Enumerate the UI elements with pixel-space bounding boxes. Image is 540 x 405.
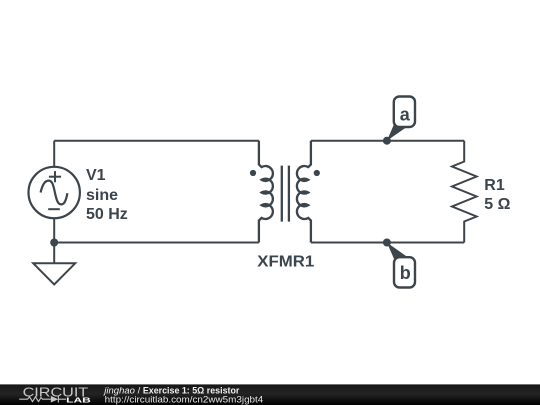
node a flag <box>387 97 415 141</box>
wire top-right rail <box>311 140 464 142</box>
wire bottom-right rail <box>311 242 464 244</box>
ground <box>33 243 75 285</box>
node b flag <box>387 243 415 288</box>
svg-text:LAB: LAB <box>66 395 91 404</box>
phase dot primary <box>250 170 256 176</box>
svg-text:sine: sine <box>86 187 118 204</box>
svg-text:b: b <box>400 263 411 283</box>
transformer core <box>282 166 289 222</box>
svg-text:50 Hz: 50 Hz <box>86 206 128 223</box>
transformer U1 XFMR1 primary winding <box>259 141 273 243</box>
phase dot secondary <box>314 170 320 176</box>
label V1 sine 50 Hz <box>86 167 128 223</box>
wire V1 top lead <box>53 141 55 167</box>
svg-text:R1: R1 <box>484 177 505 194</box>
resistor R1 <box>452 141 477 243</box>
transformer U1 XFMR1 secondary winding <box>297 141 311 243</box>
svg-text:5 Ω: 5 Ω <box>484 196 510 213</box>
label R1 5 ohm <box>484 177 510 213</box>
svg-text:http://circuitlab.com/cn2ww5m3: http://circuitlab.com/cn2ww5m3jgbt4 <box>105 395 264 405</box>
svg-text:a: a <box>400 105 411 125</box>
CircuitLab logo schematic wire with resistor and diode <box>19 396 66 403</box>
wire bottom-left rail <box>54 242 259 244</box>
junction dot node b <box>383 239 391 247</box>
svg-text:XFMR1: XFMR1 <box>257 253 314 270</box>
voltage source V1 <box>29 167 80 218</box>
svg-text:V1: V1 <box>86 167 106 184</box>
wire top-left rail <box>54 140 259 142</box>
junction dot node a <box>383 137 391 145</box>
wire V1 bottom lead <box>53 218 55 242</box>
junction dot at V1 ground node <box>50 239 58 247</box>
